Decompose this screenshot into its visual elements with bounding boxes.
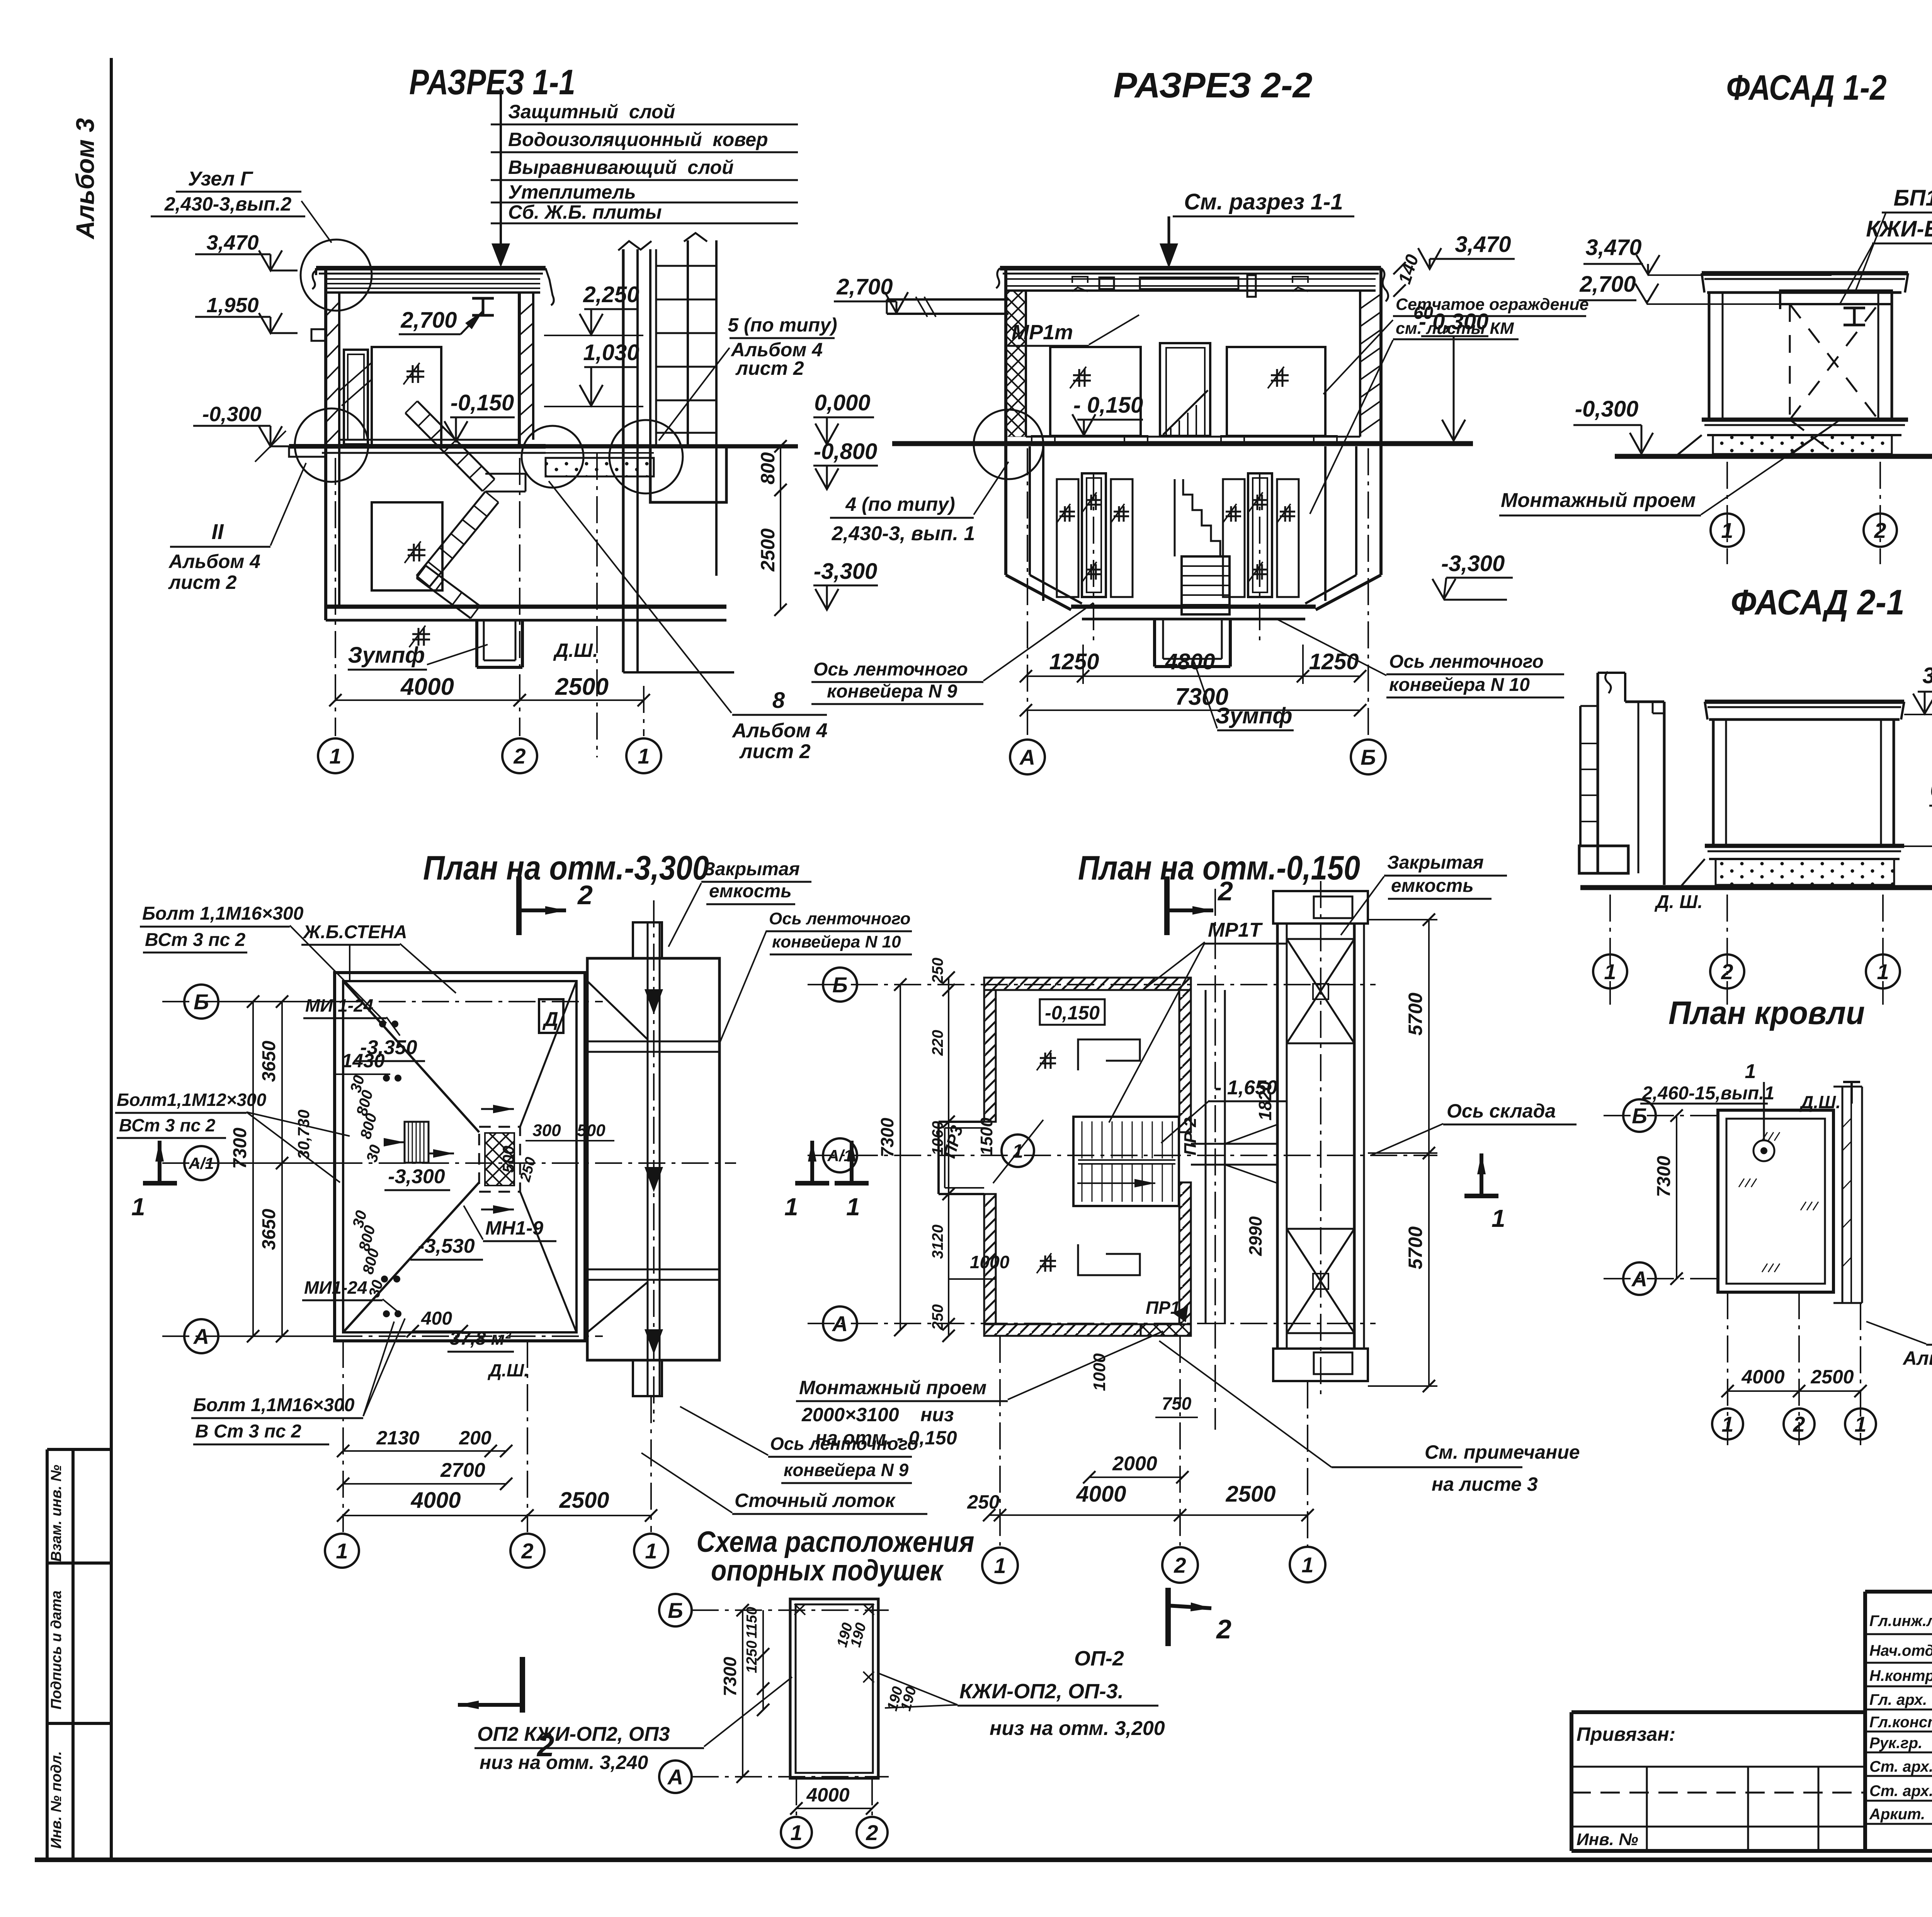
svg-text:3650: 3650: [259, 1041, 279, 1082]
svg-text:1000: 1000: [1090, 1353, 1109, 1391]
svg-text:4000: 4000: [410, 1488, 461, 1513]
svg-text:750: 750: [1162, 1393, 1192, 1414]
svg-text:МИ1-24: МИ1-24: [304, 1277, 367, 1298]
svg-text:4800: 4800: [1165, 649, 1215, 674]
svg-text:Ст. арх.: Ст. арх.: [1869, 1758, 1932, 1775]
svg-text:7300: 7300: [1175, 684, 1228, 710]
svg-text:МР1Т: МР1Т: [1208, 919, 1263, 941]
svg-text:1: 1: [994, 1553, 1006, 1578]
svg-text:4000: 4000: [400, 674, 454, 700]
svg-text:1: 1: [1604, 959, 1616, 984]
svg-text:БП1: БП1: [1893, 185, 1932, 211]
svg-text:МИ 1-24: МИ 1-24: [305, 995, 373, 1015]
svg-text:низ на отм. 3,240: низ на отм. 3,240: [480, 1752, 648, 1773]
plan at -3.300: [115, 849, 912, 1763]
svg-text:Ст. арх.: Ст. арх.: [1869, 1783, 1932, 1800]
svg-text:Ось ленточного: Ось ленточного: [770, 1434, 918, 1454]
svg-text:800: 800: [357, 1111, 380, 1141]
svg-text:1: 1: [1745, 1060, 1756, 1083]
svg-text:лист 2: лист 2: [735, 357, 804, 379]
support pads schema: [474, 1526, 1165, 1848]
svg-text:Водоизоляционный ковер: Водоизоляционный ковер: [508, 129, 768, 150]
svg-text:1: 1: [846, 1193, 860, 1221]
section view Razrez 1-1: [151, 63, 1009, 773]
svg-text:1150: 1150: [744, 1607, 760, 1638]
svg-text:2: 2: [513, 744, 526, 768]
svg-text:500: 500: [577, 1121, 605, 1140]
svg-text:Сточный лоток: Сточный лоток: [735, 1490, 896, 1511]
svg-text:А/1: А/1: [188, 1154, 214, 1172]
svg-text:ФАСАД 2-1: ФАСАД 2-1: [1731, 583, 1905, 622]
svg-text:2,430-3,вып.2: 2,430-3,вып.2: [164, 193, 292, 215]
svg-text:2500: 2500: [559, 1488, 609, 1513]
svg-text:1: 1: [329, 744, 341, 768]
svg-text:- 0,150: - 0,150: [1073, 393, 1143, 418]
svg-text:Нач.отд.: Нач.отд.: [1869, 1642, 1932, 1659]
svg-text:Схема расположения: Схема расположения: [697, 1526, 975, 1558]
svg-text:1: 1: [645, 1539, 657, 1563]
svg-text:А: А: [193, 1324, 209, 1349]
svg-text:конвейера N 10: конвейера N 10: [1389, 675, 1530, 695]
svg-text:Д: Д: [542, 1008, 558, 1031]
svg-text:Зумпф: Зумпф: [348, 643, 425, 668]
svg-text:250: 250: [929, 1304, 946, 1330]
svg-text:Д. Ш.: Д. Ш.: [1654, 892, 1703, 912]
svg-text:4000: 4000: [1076, 1482, 1126, 1507]
svg-text:Ж.Б.СТЕНА: Ж.Б.СТЕНА: [302, 922, 407, 942]
svg-text:800: 800: [359, 1247, 383, 1276]
svg-text:220: 220: [929, 1030, 946, 1056]
svg-text:Защитный слой: Защитный слой: [508, 101, 675, 122]
svg-text:2000: 2000: [1112, 1453, 1157, 1475]
svg-text:Альбом 3: Альбом 3: [71, 118, 99, 240]
svg-text:2500: 2500: [757, 528, 779, 572]
svg-text:2: 2: [1721, 959, 1733, 984]
svg-text:Б: Б: [1361, 745, 1376, 769]
svg-text:Альбом 4: Альбом 4: [168, 551, 260, 572]
svg-text:Болт 1,1М16×300: Болт 1,1М16×300: [142, 903, 304, 924]
svg-text:План на отм.-3,300: План на отм.-3,300: [423, 849, 709, 887]
svg-text:1: 1: [1301, 1553, 1313, 1577]
svg-text:Утеплитель: Утеплитель: [508, 181, 636, 203]
svg-text:опорных подушек: опорных подушек: [711, 1554, 944, 1587]
svg-text:1500: 1500: [977, 1118, 996, 1155]
svg-text:-3,530: -3,530: [418, 1235, 475, 1257]
svg-text:3120: 3120: [929, 1225, 946, 1259]
svg-text:емкость: емкость: [709, 881, 792, 902]
svg-text:Узел Г: Узел Г: [188, 168, 253, 190]
svg-text:См. примечание: См. примечание: [1425, 1441, 1580, 1463]
svg-text:МН1-9: МН1-9: [485, 1217, 543, 1239]
svg-text:См. разрез 1-1: См. разрез 1-1: [1184, 189, 1343, 214]
svg-text:Б: Б: [668, 1598, 683, 1623]
svg-text:Ось ленточного: Ось ленточного: [1389, 651, 1544, 672]
svg-text:0,000: 0,000: [814, 390, 870, 415]
svg-text:-3,300: -3,300: [388, 1165, 445, 1188]
svg-text:Д.Ш.: Д.Ш.: [487, 1360, 529, 1380]
svg-text:Сб. Ж.Б. плиты: Сб. Ж.Б. плиты: [508, 201, 662, 223]
svg-text:-0,800: -0,800: [814, 439, 877, 464]
svg-text:1: 1: [131, 1193, 145, 1221]
svg-text:Б: Б: [194, 990, 209, 1014]
svg-text:Инв. №: Инв. №: [1577, 1830, 1638, 1849]
svg-text:А/1: А/1: [827, 1146, 852, 1165]
svg-text:2500: 2500: [555, 674, 609, 700]
svg-text:2,700: 2,700: [400, 308, 457, 333]
section view Razrez 2-2: [811, 66, 1589, 774]
svg-text:1: 1: [638, 744, 650, 768]
svg-text:250: 250: [967, 1491, 1000, 1513]
svg-text:-0,150: -0,150: [451, 390, 514, 415]
svg-text:250: 250: [929, 958, 946, 984]
svg-text:2: 2: [1793, 1412, 1805, 1436]
svg-text:1: 1: [1721, 518, 1733, 543]
svg-text:7300: 7300: [877, 1118, 897, 1157]
svg-text:-3,300: -3,300: [1441, 551, 1505, 576]
svg-text:-0,300: -0,300: [202, 403, 261, 426]
svg-text:1: 1: [1854, 1412, 1866, 1436]
svg-text:Ось склада: Ось склада: [1447, 1100, 1556, 1122]
svg-text:План кровли: План кровли: [1668, 995, 1865, 1031]
svg-text:2700: 2700: [440, 1459, 485, 1482]
svg-text:7300: 7300: [720, 1657, 740, 1696]
svg-text:ОП-2: ОП-2: [1074, 1647, 1124, 1670]
svg-text:Подпись и дата: Подпись и дата: [48, 1590, 65, 1709]
svg-text:2130: 2130: [376, 1427, 419, 1449]
svg-text:лист 2: лист 2: [168, 572, 237, 593]
svg-text:1: 1: [784, 1193, 798, 1221]
svg-text:Гл.конст.: Гл.конст.: [1869, 1714, 1932, 1731]
svg-text:конвейера N 10: конвейера N 10: [772, 932, 901, 951]
svg-text:-0,150: -0,150: [1045, 1002, 1100, 1024]
svg-text:низ на отм. 3,200: низ на отм. 3,200: [990, 1717, 1165, 1740]
svg-text:на листе 3: на листе 3: [1432, 1473, 1538, 1495]
svg-text:Альбом 4 лист 2: Альбом 4 лист 2: [1902, 1347, 1932, 1369]
svg-text:1: 1: [1492, 1204, 1505, 1232]
svg-text:2: 2: [577, 880, 593, 910]
svg-text:ПР 2: ПР 2: [1181, 1118, 1200, 1155]
svg-text:30: 30: [363, 1143, 384, 1164]
svg-text:Взам. инв. №: Взам. инв. №: [48, 1465, 65, 1562]
plan at -0.150: [641, 849, 1580, 1646]
svg-text:4000: 4000: [1741, 1366, 1784, 1388]
svg-text:Закрытая: Закрытая: [1387, 852, 1484, 873]
svg-text:7300: 7300: [1654, 1156, 1674, 1197]
svg-text:Ось ленточного: Ось ленточного: [813, 659, 968, 680]
svg-text:Закрытая: Закрытая: [703, 859, 800, 879]
svg-text:2,250: 2,250: [583, 282, 639, 307]
svg-text:Монтажный проем: Монтажный проем: [799, 1377, 986, 1398]
svg-text:4 (по типу): 4 (по типу): [845, 493, 955, 515]
svg-text:3,470: 3,470: [1922, 663, 1932, 688]
svg-text:Альбом 4: Альбом 4: [731, 720, 828, 742]
svg-text:-0,300: -0,300: [1575, 396, 1638, 422]
svg-text:-3,300: -3,300: [814, 559, 877, 584]
svg-text:1: 1: [1721, 1412, 1733, 1436]
svg-text:3650: 3650: [259, 1209, 279, 1250]
svg-text:8: 8: [772, 688, 785, 713]
svg-text:А: А: [1019, 745, 1035, 769]
svg-text:3,470: 3,470: [1585, 235, 1641, 260]
svg-text:ФАСАД 1-2: ФАСАД 1-2: [1726, 68, 1887, 107]
svg-text:А: А: [667, 1765, 683, 1789]
svg-text:2,700: 2,700: [836, 274, 893, 299]
svg-text:Болт1,1М12×300: Болт1,1М12×300: [117, 1090, 267, 1110]
svg-text:37,8 м²: 37,8 м²: [450, 1328, 512, 1349]
svg-text:Гл. арх.: Гл. арх.: [1869, 1691, 1927, 1708]
svg-text:2990: 2990: [1245, 1216, 1265, 1256]
svg-text:5700: 5700: [1405, 993, 1426, 1036]
svg-text:800: 800: [757, 452, 779, 485]
svg-text:Рук.гр.: Рук.гр.: [1869, 1735, 1922, 1752]
svg-text:1: 1: [336, 1539, 348, 1563]
svg-text:500: 500: [499, 1146, 517, 1173]
svg-text:2000×3100 низ: 2000×3100 низ: [801, 1404, 954, 1425]
svg-text:II: II: [211, 519, 224, 544]
svg-text:Болт 1,1М16×300: Болт 1,1М16×300: [193, 1395, 355, 1415]
svg-text:1250: 1250: [744, 1640, 760, 1673]
svg-text:5 (по типу): 5 (по типу): [728, 314, 837, 336]
svg-text:2: 2: [1216, 1614, 1231, 1644]
svg-text:Н.контр: Н.контр: [1869, 1667, 1932, 1684]
roof plan: [1604, 995, 1932, 1445]
svg-text:1000: 1000: [970, 1252, 1010, 1272]
svg-text:2500: 2500: [1810, 1366, 1854, 1388]
svg-text:4000: 4000: [806, 1784, 849, 1806]
svg-text:Выравнивающий слой: Выравнивающий слой: [508, 156, 734, 178]
svg-text:1: 1: [1877, 959, 1889, 984]
svg-text:КЖИ-ОП2, ОП-3.: КЖИ-ОП2, ОП-3.: [959, 1680, 1124, 1703]
svg-text:3,470: 3,470: [206, 231, 259, 254]
svg-text:60: 60: [1413, 303, 1434, 323]
svg-text:ВСт 3 пс 2: ВСт 3 пс 2: [145, 930, 246, 950]
svg-text:ОП2 КЖИ-ОП2, ОП3: ОП2 КЖИ-ОП2, ОП3: [477, 1723, 670, 1745]
svg-text:ВСт 3 пс 2: ВСт 3 пс 2: [119, 1115, 216, 1135]
svg-text:Аркит.: Аркит.: [1869, 1806, 1925, 1823]
svg-text:емкость: емкость: [1391, 876, 1474, 896]
svg-text:30,730: 30,730: [294, 1110, 313, 1159]
svg-text:Гл.инж.лр: Гл.инж.лр: [1869, 1613, 1932, 1630]
svg-text:2: 2: [1217, 876, 1233, 906]
svg-text:1250: 1250: [1309, 649, 1359, 674]
svg-text:2,430-3, вып. 1: 2,430-3, вып. 1: [832, 522, 975, 545]
svg-text:1,950: 1,950: [206, 294, 259, 317]
svg-text:лист 2: лист 2: [739, 740, 811, 763]
svg-text:1,030: 1,030: [583, 340, 639, 365]
svg-text:А: А: [832, 1311, 848, 1336]
svg-text:Монтажный проем: Монтажный проем: [1501, 489, 1696, 512]
facade 1-2: [1499, 68, 1932, 564]
svg-text:1: 1: [790, 1820, 802, 1845]
svg-text:400: 400: [421, 1308, 452, 1329]
svg-text:2: 2: [1173, 1553, 1186, 1577]
svg-text:РАЗРЕЗ 2-2: РАЗРЕЗ 2-2: [1114, 66, 1313, 105]
svg-text:1250: 1250: [1049, 649, 1099, 674]
svg-text:0,375: 0,375: [1930, 777, 1932, 802]
svg-text:3,470: 3,470: [1455, 232, 1511, 257]
svg-text:200: 200: [459, 1427, 492, 1449]
svg-text:2: 2: [521, 1539, 533, 1563]
svg-text:Инв. № подл.: Инв. № подл.: [48, 1751, 65, 1849]
svg-text:2500: 2500: [1225, 1482, 1276, 1507]
svg-text:2,700: 2,700: [1579, 272, 1636, 297]
svg-text:РАЗРЕЗ 1-1: РАЗРЕЗ 1-1: [409, 63, 575, 102]
title block: [1571, 1529, 1932, 1851]
svg-text:1060: 1060: [929, 1121, 946, 1155]
svg-text:Д.Ш.: Д.Ш.: [553, 640, 598, 661]
svg-text:2,460-15,вып.1: 2,460-15,вып.1: [1642, 1083, 1774, 1104]
svg-text:А: А: [1631, 1267, 1647, 1291]
svg-text:конвейера N 9: конвейера N 9: [784, 1460, 909, 1480]
svg-text:300: 300: [532, 1121, 561, 1140]
svg-text:конвейера N 9: конвейера N 9: [827, 681, 957, 702]
facade 2-1: [1579, 583, 1932, 1005]
svg-text:В Ст 3 пс 2: В Ст 3 пс 2: [195, 1421, 301, 1442]
svg-text:2: 2: [866, 1820, 878, 1845]
svg-text:Б: Б: [832, 973, 848, 997]
svg-text:250: 250: [517, 1155, 539, 1184]
svg-text:Д.Ш.: Д.Ш.: [1799, 1092, 1841, 1112]
svg-text:Б: Б: [1632, 1104, 1647, 1128]
svg-text:5700: 5700: [1405, 1226, 1426, 1269]
svg-text:1430: 1430: [342, 1050, 384, 1072]
svg-text:2: 2: [1874, 518, 1886, 543]
svg-text:1820: 1820: [1255, 1081, 1275, 1121]
svg-text:Привязан:: Привязан:: [1577, 1723, 1675, 1745]
svg-text:Ось ленточного: Ось ленточного: [769, 909, 910, 928]
